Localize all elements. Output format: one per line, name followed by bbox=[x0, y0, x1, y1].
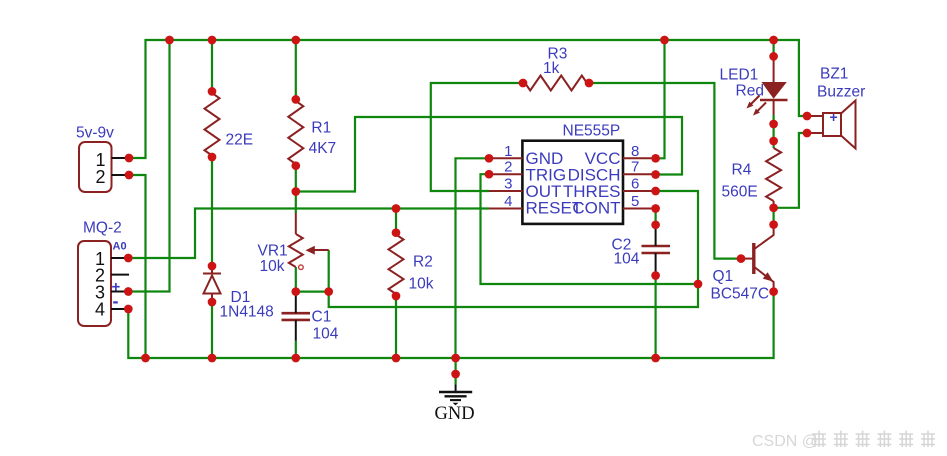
svg-text:5v-9v: 5v-9v bbox=[76, 125, 114, 142]
svg-text:560E: 560E bbox=[722, 184, 758, 201]
svg-text:6: 6 bbox=[631, 176, 639, 193]
svg-text:CSDN @: CSDN @ bbox=[752, 433, 818, 450]
svg-text:10k: 10k bbox=[409, 276, 434, 293]
svg-text:2: 2 bbox=[95, 167, 105, 187]
svg-text:CONT: CONT bbox=[572, 199, 620, 218]
svg-text:+: + bbox=[830, 109, 838, 125]
svg-text:GND: GND bbox=[435, 404, 475, 424]
svg-text:Q1: Q1 bbox=[713, 268, 734, 285]
svg-text:10k: 10k bbox=[260, 258, 285, 275]
svg-text:4: 4 bbox=[95, 300, 105, 320]
svg-text:C1: C1 bbox=[312, 309, 332, 326]
svg-text:104: 104 bbox=[313, 326, 339, 343]
svg-text:1N4148: 1N4148 bbox=[220, 304, 274, 321]
svg-text:LED1: LED1 bbox=[720, 67, 759, 84]
svg-text:7: 7 bbox=[631, 159, 639, 176]
svg-text:22E: 22E bbox=[226, 132, 254, 149]
svg-text:R1: R1 bbox=[311, 120, 331, 137]
svg-text:MQ-2: MQ-2 bbox=[83, 220, 122, 237]
svg-text:1: 1 bbox=[504, 143, 512, 160]
svg-text:2: 2 bbox=[504, 159, 512, 176]
svg-text:BC547C: BC547C bbox=[711, 286, 770, 303]
svg-text:1k: 1k bbox=[543, 60, 560, 77]
svg-text:BZ1: BZ1 bbox=[820, 66, 848, 83]
svg-text:5: 5 bbox=[631, 193, 639, 210]
svg-text:NE555P: NE555P bbox=[563, 123, 621, 140]
svg-text:-: - bbox=[113, 291, 119, 311]
svg-text:Buzzer: Buzzer bbox=[817, 84, 865, 101]
svg-text:A0: A0 bbox=[113, 241, 127, 253]
svg-text:3: 3 bbox=[504, 176, 512, 193]
svg-text:VR1: VR1 bbox=[258, 243, 288, 260]
svg-text:4K7: 4K7 bbox=[309, 140, 337, 157]
svg-text:R2: R2 bbox=[413, 254, 433, 271]
svg-text:104: 104 bbox=[614, 251, 640, 268]
svg-text:8: 8 bbox=[631, 143, 639, 160]
svg-text:Red: Red bbox=[736, 83, 764, 100]
svg-text:4: 4 bbox=[504, 193, 512, 210]
svg-text:R4: R4 bbox=[732, 162, 752, 179]
